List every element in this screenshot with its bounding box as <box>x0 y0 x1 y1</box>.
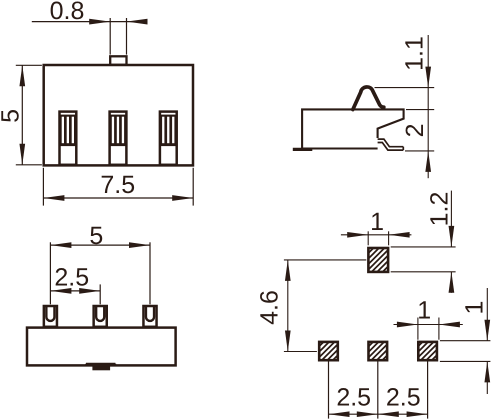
dimension 2 (body height side view): extension line, dimension line, arrows, label <box>401 88 434 179</box>
front view: switch body outline <box>44 65 193 165</box>
dimension 7.5 (body width): extension lines, dimension line, arrows, label <box>43 168 193 206</box>
front view: terminal pin 3 <box>160 112 177 165</box>
top view: terminal pin 2 with slot <box>94 305 107 327</box>
top view: pin 3 center line <box>149 242 151 304</box>
svg-text:2.5: 2.5 <box>336 383 371 411</box>
dimension 1 (pad 3 width): extension lines, leaders, arrows, label <box>394 296 463 339</box>
dimension 2.5 (pin pitch): dimension line, arrows, label <box>50 264 100 294</box>
svg-text:7.5: 7.5 <box>100 171 135 199</box>
svg-text:1.1: 1.1 <box>401 36 429 71</box>
dimension 2.5 (pad pitch left): dimension line, arrows, label <box>329 383 378 417</box>
footprint: pad 2 center line <box>377 362 379 419</box>
front view: terminal pin 2 <box>110 112 127 165</box>
svg-text:0.8: 0.8 <box>50 0 85 25</box>
footprint: pad 1 center line <box>328 362 330 419</box>
dimension 1.2 (top pad height): extension lines, arrows, label <box>391 191 456 293</box>
side view: left mounting foot <box>293 148 313 151</box>
side view: bent terminal lead (double outline) <box>378 139 404 150</box>
svg-text:2.5: 2.5 <box>54 264 89 292</box>
footprint: bottom pad 2 hatched <box>369 342 388 360</box>
front view: top actuator tab (0.8 wide) <box>110 56 126 65</box>
top view: pin 1 center line <box>49 242 51 304</box>
dimension 5 (body height): extension lines, dimension line, arrows, label <box>0 65 42 165</box>
footprint: top pad (1 x 1.2) hatched <box>368 248 388 272</box>
dimension 1 (pad 3 height): extension lines, arrows, label <box>440 288 491 394</box>
top view: pin 2 center line <box>99 284 101 304</box>
dimension 2.5 (pad pitch right): dimension line, arrows, label <box>378 383 428 417</box>
top view: terminal pin 1 with slot <box>44 305 57 327</box>
svg-text:2: 2 <box>401 123 429 137</box>
top view: bottom center locating boss <box>86 364 115 371</box>
svg-text:1: 1 <box>461 301 489 315</box>
dimension 1.1 (clip protrusion height): extension lines, arrows, label <box>375 35 435 110</box>
top view: switch body outline <box>27 328 176 366</box>
svg-text:1.2: 1.2 <box>425 192 453 227</box>
top view: terminal pin 3 with slot <box>143 305 156 327</box>
front view: terminal pin 1 <box>60 112 77 165</box>
dimension 4.6 (pad row spacing): extension lines, dimension line, arrows, label <box>255 260 366 352</box>
svg-text:1: 1 <box>417 296 431 324</box>
dimension 1 (top pad width): extension lines, leaders, arrows, label <box>341 208 412 245</box>
side view: spring clip on top <box>353 87 384 110</box>
svg-text:2.5: 2.5 <box>386 383 421 411</box>
footprint: bottom pad 1 hatched <box>319 342 338 360</box>
dimension 0.8 (tab width): extension lines, leaders, arrows, label <box>32 0 148 55</box>
footprint: bottom pad 3 hatched <box>418 342 437 360</box>
svg-text:1: 1 <box>370 208 384 236</box>
footprint: pad 3 center line <box>427 362 429 419</box>
svg-text:4.6: 4.6 <box>255 290 283 325</box>
svg-text:5: 5 <box>89 222 103 250</box>
side view: switch body profile <box>302 109 404 148</box>
svg-text:5: 5 <box>0 109 25 123</box>
dimension 5 (outer pin pitch): dimension line, arrows, label <box>50 222 150 250</box>
